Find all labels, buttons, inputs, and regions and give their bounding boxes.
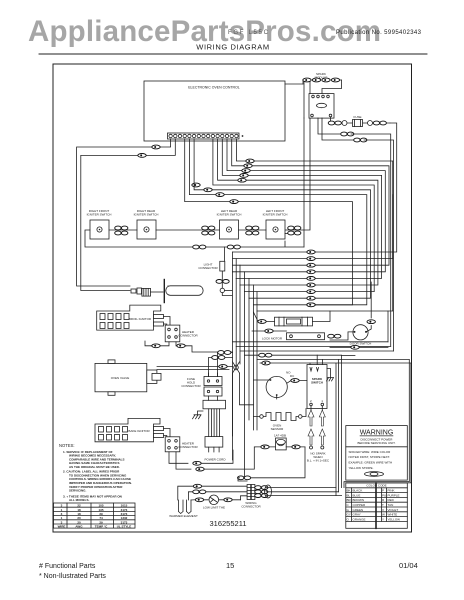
heater connector label (broil) <box>178 330 198 338</box>
wire fan 1 <box>236 139 392 259</box>
svg-text:B.L. + IN 1+SEC: B.L. + IN 1+SEC <box>307 459 330 463</box>
spark switch top wires <box>310 355 323 364</box>
svg-text:P: P <box>382 489 384 493</box>
svg-text:WHITE: WHITE <box>388 513 398 517</box>
svg-text:SWITCH: SWITCH <box>311 381 323 385</box>
wire drop C <box>236 345 391 347</box>
svg-text:SPACER WIRE: WIRE COLOR: SPACER WIRE: WIRE COLOR <box>349 450 392 454</box>
oven light connector label <box>198 263 218 271</box>
heater connector (bake) <box>164 429 180 452</box>
svg-text:OVEN VALVE: OVEN VALVE <box>111 376 130 380</box>
oven motor circle <box>253 376 306 399</box>
svg-text:01/04: 01/04 <box>399 561 418 570</box>
svg-text:SENSOR: SENSOR <box>271 427 285 431</box>
wire drop F <box>224 247 226 261</box>
svg-text:PINK: PINK <box>388 489 395 493</box>
svg-text:CONNECTOR: CONNECTOR <box>198 266 218 270</box>
svg-text:CONNECTOR: CONNECTOR <box>241 505 261 509</box>
lock motor bus wire <box>257 195 393 322</box>
bottom wire run 1 <box>178 484 247 500</box>
svg-text:ELECTRONIC OVEN CONTROL: ELECTRONIC OVEN CONTROL <box>188 86 240 90</box>
wire fan 2 <box>232 139 389 265</box>
svg-text:CONNECTOR: CONNECTOR <box>178 445 198 449</box>
svg-text:BLACK: BLACK <box>353 489 363 493</box>
fuse wire with FUSE label <box>307 115 397 254</box>
bottom wire run 3 <box>241 496 248 500</box>
color code table <box>346 483 408 528</box>
wire EOC left run 1 <box>77 139 171 286</box>
spark electrodes arrows <box>308 406 325 449</box>
wires from broil heater connector <box>145 341 233 352</box>
terminal connector label <box>241 501 261 509</box>
svg-text:Publication No. 5995402343: Publication No. 5995402343 <box>336 30 422 36</box>
svg-text:FUSE: FUSE <box>353 115 361 119</box>
broil ignitor <box>97 305 164 330</box>
svg-text:BK: BK <box>347 489 351 493</box>
power cord cable <box>205 409 223 452</box>
wire to terminal block top <box>238 447 306 481</box>
svg-text:WARMER ELEMENT: WARMER ELEMENT <box>169 514 198 518</box>
svg-text:YELLOW: YELLOW <box>388 517 401 521</box>
notes text <box>63 450 132 502</box>
wire fan 8 <box>189 139 366 305</box>
svg-text:AWG: AWG <box>75 525 83 529</box>
svg-text:WIRING DIAGRAM: WIRING DIAGRAM <box>196 43 269 52</box>
oven light connector on drop F <box>220 261 232 295</box>
right rear igniter switch <box>137 220 156 239</box>
svg-text:ORANGE: ORANGE <box>353 517 366 521</box>
convection element <box>253 409 306 421</box>
svg-text:IGNITER SWITCH: IGNITER SWITCH <box>134 213 159 217</box>
svg-text:W: W <box>382 513 385 517</box>
svg-text:VIOLET: VIOLET <box>388 508 399 512</box>
warning box <box>346 426 408 481</box>
svg-text:GRAY: GRAY <box>353 513 361 517</box>
wire drop D <box>240 350 394 352</box>
wire drop A <box>185 139 353 305</box>
svg-text:15: 15 <box>226 561 234 570</box>
terminal connector block <box>247 485 255 500</box>
svg-text:LOCK MOTOR: LOCK MOTOR <box>262 337 283 341</box>
svg-text:WARNING: WARNING <box>360 430 394 437</box>
svg-text:ALL MODELS.: ALL MODELS. <box>69 498 89 502</box>
wire fan 4 <box>222 139 381 278</box>
svg-text:BL: BL <box>347 493 351 497</box>
svg-text:V: V <box>382 508 384 512</box>
svg-text:TEMP °C: TEMP °C <box>95 525 108 529</box>
svg-text:1A? 4DB: 1A? 4DB <box>274 434 286 438</box>
svg-text:CONNECTOR: CONNECTOR <box>178 334 198 338</box>
left front igniter switch <box>266 220 285 239</box>
electronic oven control box <box>144 81 285 141</box>
oval column horizontals to mid section <box>233 252 307 478</box>
svg-text:DOOR SWITCH: DOOR SWITCH <box>350 342 372 346</box>
low limit thermostat <box>191 495 241 505</box>
left rear igniter switch <box>220 220 239 239</box>
svg-text:PURPLE: PURPLE <box>388 493 400 497</box>
wire drop B <box>233 341 389 343</box>
header rule <box>39 53 427 55</box>
spark module connector row <box>285 78 342 247</box>
heater connector label (bake) <box>178 442 198 450</box>
ground symbol <box>193 411 204 419</box>
bottom wire run 2 <box>188 490 247 500</box>
wires from oven valve <box>157 365 233 370</box>
svg-text:Y: Y <box>382 517 384 521</box>
convection element label <box>271 424 285 432</box>
svg-text:GREEN: GREEN <box>353 508 364 512</box>
svg-text:UL STYLE: UL STYLE <box>117 525 131 529</box>
svg-text:NOTES:: NOTES: <box>59 443 75 448</box>
oven valve <box>95 360 161 395</box>
spark switch label <box>311 377 323 385</box>
neutral junction node <box>209 351 254 436</box>
svg-text:COPPER: COPPER <box>353 503 367 507</box>
power cord strain relief <box>203 396 226 409</box>
svg-text:BEFORE SERVICING UNIT.: BEFORE SERVICING UNIT. <box>358 441 396 445</box>
wire drop E <box>245 355 342 487</box>
svg-text:316255211: 316255211 <box>210 519 247 528</box>
wire fan 6 <box>213 139 374 292</box>
svg-text:YELLOW STRIPE.: YELLOW STRIPE. <box>349 466 374 470</box>
spark switch box <box>307 365 334 409</box>
igniter switch row labels <box>87 209 288 217</box>
connector cluster <box>255 485 342 498</box>
EOC terminal strip P1 <box>168 133 244 139</box>
warmer element <box>179 500 192 514</box>
svg-text:NOTED FIRST, STRIPE NEXT.: NOTED FIRST, STRIPE NEXT. <box>349 455 391 459</box>
wires between igniter switches <box>85 226 304 249</box>
right front igniter switch <box>90 220 109 239</box>
oven lamp <box>255 438 305 450</box>
wire fan 7 <box>194 139 370 298</box>
long vertical drops to lower section <box>185 139 394 488</box>
svg-text:LOW LIMIT THE: LOW LIMIT THE <box>203 506 225 510</box>
fuse holder label <box>181 377 201 388</box>
svg-text:TAN: TAN <box>388 503 394 507</box>
svg-text:CONNECTOR: CONNECTOR <box>181 384 201 388</box>
svg-text:IGNITER SWITCH: IGNITER SWITCH <box>263 213 288 217</box>
svg-text:BROWN: BROWN <box>353 498 365 502</box>
svg-text:T: T <box>382 503 384 507</box>
EOC fan-out wires right <box>189 139 392 307</box>
svg-text:WIRE: WIRE <box>58 525 66 529</box>
wire below spark module <box>318 118 394 351</box>
wires from bake heater connector <box>169 447 255 471</box>
svg-text:POWER CORD: POWER CORD <box>205 458 227 462</box>
lock motor assembly <box>252 312 341 340</box>
temperature probe <box>131 280 203 303</box>
svg-text:SERVICING.: SERVICING. <box>69 489 86 493</box>
wire gauge table <box>54 503 136 529</box>
diagram outer border <box>53 64 412 532</box>
fuse holder connector boxes <box>204 373 222 396</box>
svg-text:EXAMPLE: GREEN WIRE WITH: EXAMPLE: GREEN WIRE WITH <box>349 461 393 465</box>
svg-text:IGNITER SWITCH: IGNITER SWITCH <box>87 213 112 217</box>
svg-text:GY: GY <box>347 513 351 517</box>
door switch <box>330 282 375 340</box>
spark module box <box>309 94 334 119</box>
svg-text:PU: PU <box>382 493 386 497</box>
svg-text:# Functional Parts: # Functional Parts <box>39 563 96 570</box>
svg-text:RED: RED <box>388 498 395 502</box>
svg-text:BAKE IGNITOR: BAKE IGNITOR <box>128 429 150 433</box>
svg-text:AS THE ORIGINAL MUST BE U: AS THE ORIGINAL MUST BE USED. <box>69 465 120 469</box>
wire fan 3 <box>227 139 385 272</box>
bake ignitor <box>95 418 164 441</box>
svg-text:BROIL IGNITOR: BROIL IGNITOR <box>129 317 152 321</box>
heater connector (broil) <box>164 317 180 342</box>
svg-text:IGNITER SWITCH: IGNITER SWITCH <box>217 213 242 217</box>
svg-text:* Non-Ilustrated Parts: * Non-Ilustrated Parts <box>39 573 106 580</box>
wire fan 5 <box>218 139 378 285</box>
svg-text:BLUE: BLUE <box>353 493 361 497</box>
spark electrode note <box>307 452 330 463</box>
wire door switch to nest <box>257 311 411 496</box>
wire EOC left run 2 <box>81 139 176 291</box>
oven motor label <box>286 371 295 379</box>
